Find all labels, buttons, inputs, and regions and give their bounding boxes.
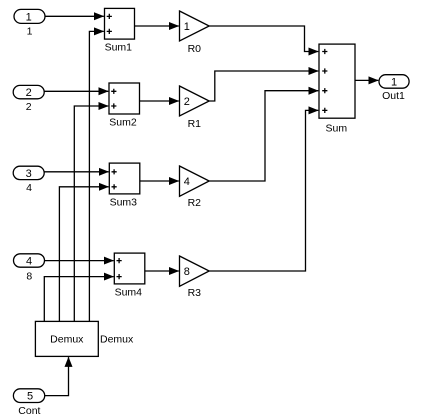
svg-text:R2: R2 [188, 197, 202, 209]
sum block Sum4 [114, 253, 145, 284]
svg-text:5: 5 [27, 391, 33, 403]
wire Demux out3 to Sum2 in2 [74, 106, 108, 321]
gain R2 label [188, 197, 202, 209]
svg-text:Sum4: Sum4 [115, 286, 143, 298]
port 3 label [26, 182, 32, 194]
svg-text:R1: R1 [188, 118, 202, 130]
input port 1 [14, 9, 45, 23]
input port 2 [13, 85, 44, 98]
wire Sum4 to R3 [145, 270, 179, 272]
svg-text:Out1: Out1 [382, 90, 405, 102]
sum block Sum3 [109, 163, 140, 194]
wire Sum3 to R2 [140, 180, 179, 182]
svg-text:4: 4 [26, 182, 32, 194]
port 4 label [26, 271, 32, 283]
gain R3 [180, 256, 210, 286]
wire P5 to Demux [45, 357, 69, 396]
wire P1 to Sum1 in1 [45, 15, 104, 17]
svg-text:Cont: Cont [18, 405, 40, 417]
sum block Sum2 [109, 83, 140, 114]
svg-text:4: 4 [184, 176, 190, 188]
wire Demux out4 to Sum1 in2 [89, 31, 103, 321]
Sum label [326, 123, 348, 135]
Sum4 label [115, 286, 143, 298]
port 2 number [26, 87, 32, 99]
wire R2 to Sum in3 [209, 91, 318, 181]
svg-text:Demux: Demux [100, 333, 134, 345]
svg-text:2: 2 [26, 87, 32, 99]
svg-text:3: 3 [26, 168, 32, 180]
svg-text:8: 8 [184, 266, 190, 278]
gain R1 value [184, 96, 190, 108]
gain R0 label [188, 43, 202, 55]
svg-text:R3: R3 [188, 287, 202, 299]
svg-text:R0: R0 [188, 43, 202, 55]
gain R1 label [188, 118, 202, 130]
Demux block text [50, 333, 84, 345]
input port 5 [13, 389, 44, 403]
wire P4 to Sum4 in1 [44, 260, 113, 262]
svg-text:Sum3: Sum3 [110, 197, 138, 209]
demux block Demux [35, 321, 98, 356]
Demux external label [100, 333, 134, 345]
svg-text:1: 1 [26, 11, 32, 23]
Sum1 label [105, 42, 133, 54]
sum block Sum [319, 44, 355, 118]
port 5 number [27, 391, 33, 403]
wire Sum2 to R1 [140, 100, 179, 102]
svg-text:Sum: Sum [326, 123, 348, 135]
output port Out1 [379, 75, 409, 89]
wire Sum to Out1 [355, 79, 378, 81]
wire R0 to Sum in1 [209, 26, 318, 52]
port 1 number [26, 11, 32, 23]
svg-text:Sum2: Sum2 [109, 116, 137, 128]
svg-text:1: 1 [391, 76, 397, 88]
gain R3 value [184, 266, 190, 278]
svg-text:1: 1 [184, 21, 190, 33]
Sum3 label [110, 197, 138, 209]
svg-text:2: 2 [26, 101, 32, 113]
gain R0 value [184, 21, 190, 33]
wire Demux out1 to Sum4 in2 [44, 277, 113, 322]
svg-text:4: 4 [26, 256, 32, 268]
wire P3 to Sum3 in1 [44, 171, 109, 173]
port 3 number [26, 168, 32, 180]
gain R0 [180, 11, 210, 41]
svg-text:1: 1 [27, 26, 33, 38]
wire R1 to Sum in2 [209, 71, 318, 101]
wire Demux out2 to Sum3 in2 [59, 187, 108, 322]
svg-text:Demux: Demux [50, 333, 84, 345]
Sum2 label [109, 116, 137, 128]
port 5 label [18, 405, 40, 417]
wire Sum1 to R0 [135, 25, 179, 27]
gain R1 [180, 86, 210, 116]
port 4 number [26, 256, 32, 268]
gain R2 value [184, 176, 190, 188]
gain R2 [180, 166, 210, 196]
port 2 label [26, 101, 32, 113]
sum block Sum1 [105, 8, 135, 39]
Out1 number [391, 76, 397, 88]
wire P2 to Sum2 in1 [44, 90, 109, 92]
Out1 label [382, 90, 405, 102]
gain R3 label [188, 287, 202, 299]
svg-text:Sum1: Sum1 [105, 42, 133, 54]
wire R3 to Sum in4 [209, 110, 318, 271]
svg-text:2: 2 [184, 96, 190, 108]
input port 4 [14, 254, 45, 267]
port 1 label [27, 26, 33, 38]
svg-text:8: 8 [26, 271, 32, 283]
input port 3 [13, 166, 44, 179]
